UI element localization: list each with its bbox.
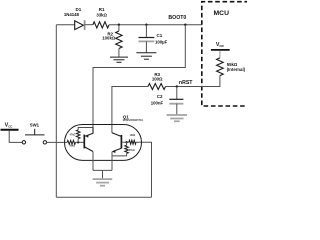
junction: BOOT0 rail tap to Q1 left emitter bbox=[184, 24, 186, 26]
C1 lower plate bbox=[139, 40, 155, 42]
transistor Q1 left PNP base bar bbox=[83, 135, 85, 149]
wire: VCC to SW1 bbox=[9, 131, 22, 143]
svg-text:100nF: 100nF bbox=[151, 100, 164, 105]
svg-text:C2: C2 bbox=[157, 94, 163, 99]
resistor R3 bbox=[148, 84, 166, 90]
wire: SW1 to Q1 left base resistor bbox=[47, 141, 68, 143]
Q1 right emitter arrow (NPN) bbox=[113, 150, 116, 153]
wire: VDD bar to internal resistor bbox=[219, 51, 221, 58]
ground under R2 bbox=[110, 57, 128, 62]
svg-text:47kΩ: 47kΩ bbox=[70, 134, 76, 137]
wire: right base node to base-emitter resistor bbox=[126, 142, 128, 145]
capacitor C2 bbox=[169, 98, 183, 100]
svg-text:100µF: 100µF bbox=[155, 39, 168, 44]
wire: left series resistor to base bar bbox=[76, 141, 84, 143]
VCC supply bar bbox=[1, 129, 19, 131]
wire: R2 to ground bbox=[118, 49, 120, 58]
wire: D1 cathode to R1 bbox=[85, 24, 93, 26]
wire: SW1 net vertical (D1 anode down to bottom rail) bbox=[55, 25, 57, 198]
Q1 right collector bbox=[112, 133, 121, 137]
capacitor C1 bbox=[139, 37, 155, 39]
Q1 right base series resistor bbox=[129, 140, 136, 144]
svg-text:1N4148: 1N4148 bbox=[64, 12, 80, 17]
wire: ground bus center tap bbox=[102, 170, 104, 179]
wire: SW1 net right riser up to Q1 right base resistor bbox=[136, 142, 152, 197]
ground under C1 bbox=[136, 53, 156, 59]
wire: right emitter down to ground bus bbox=[111, 152, 113, 171]
diode D1 bbox=[75, 21, 84, 30]
wire: internal resistor to nRST pin bbox=[166, 76, 220, 87]
svg-text:33kΩ: 33kΩ bbox=[96, 12, 107, 17]
svg-text:BOOT0: BOOT0 bbox=[168, 15, 186, 21]
svg-text:SW1: SW1 bbox=[30, 123, 40, 128]
svg-text:MUN5234DW1T1G: MUN5234DW1T1G bbox=[123, 119, 144, 122]
svg-text:10kΩ: 10kΩ bbox=[69, 146, 75, 148]
svg-text:100Ω: 100Ω bbox=[152, 77, 163, 82]
wire: Q1 ground bus bbox=[93, 169, 112, 171]
resistor 55k internal pull-up bbox=[217, 58, 224, 76]
wire: BOOT0 down and left to Q1 left emitter bbox=[93, 25, 185, 128]
wire: left base node to base-emitter resistor bbox=[77, 139, 79, 143]
junction: C1 tap on BOOT0 rail bbox=[145, 24, 147, 26]
Q1 left emitter bbox=[85, 128, 93, 137]
wire: SW1 net bottom rail bbox=[56, 196, 151, 198]
wire: nRST rail to C2 bbox=[176, 87, 178, 100]
wire: right base bar to series resistor bbox=[122, 141, 129, 143]
ground under Q1 bbox=[93, 179, 113, 186]
MCU dashed box bbox=[202, 2, 249, 106]
resistor R2 bbox=[116, 31, 122, 49]
wire: right base-emitter resistor to emitter bbox=[112, 153, 127, 156]
junction: C2 tap on nRST rail bbox=[176, 85, 178, 87]
Q1 left collector bbox=[85, 147, 93, 152]
wire: C2 to ground bbox=[176, 104, 178, 115]
svg-text:(Internal): (Internal) bbox=[227, 67, 246, 72]
svg-text:C1: C1 bbox=[157, 33, 163, 38]
svg-text:47kΩ: 47kΩ bbox=[129, 149, 135, 152]
svg-text:100kΩ: 100kΩ bbox=[102, 36, 116, 41]
VDD supply bar bbox=[211, 49, 230, 51]
wire: BOOT0 rail from R1 to MCU pin bbox=[109, 24, 202, 26]
resistor R1 bbox=[93, 22, 109, 28]
wire: BOOT0 rail from corner to diode D1 anode bbox=[56, 24, 74, 26]
wire: left base-emitter resistor up to emitter node bbox=[78, 128, 93, 130]
wire: left collector down to ground bus bbox=[92, 152, 94, 171]
wire: BOOT0 rail to C1 bbox=[145, 25, 147, 38]
switch SW1 pushbutton bbox=[22, 129, 46, 144]
junction: R2 tap on BOOT0 rail bbox=[118, 24, 120, 26]
Q1 right base-emitter resistor bbox=[125, 145, 129, 153]
svg-text:R1: R1 bbox=[99, 7, 105, 12]
svg-text:nRST: nRST bbox=[179, 80, 193, 86]
transistor Q1 right NPN base bar bbox=[120, 135, 122, 149]
transistor Q1 dual package outline bbox=[65, 125, 142, 161]
Q1 right emitter bbox=[112, 148, 121, 151]
Q1 left emitter arrow (PNP) bbox=[86, 134, 89, 137]
wire: C1 to ground bbox=[145, 41, 147, 52]
wire: BOOT0 rail to R2 bbox=[118, 25, 120, 31]
wire: nRST rail left and down to Q1 right collector bbox=[112, 87, 148, 133]
svg-text:10kΩ: 10kΩ bbox=[130, 135, 136, 137]
D1 cathode bar bbox=[84, 20, 86, 30]
junction: left base node bbox=[77, 141, 79, 143]
junction: right base node bbox=[126, 141, 128, 143]
C2 lower plate bbox=[169, 103, 183, 105]
ground under C2 bbox=[167, 115, 188, 121]
Q1 left base-emitter resistor bbox=[76, 130, 80, 139]
svg-text:MCU: MCU bbox=[214, 10, 230, 17]
Q1 left base series resistor bbox=[67, 140, 75, 144]
